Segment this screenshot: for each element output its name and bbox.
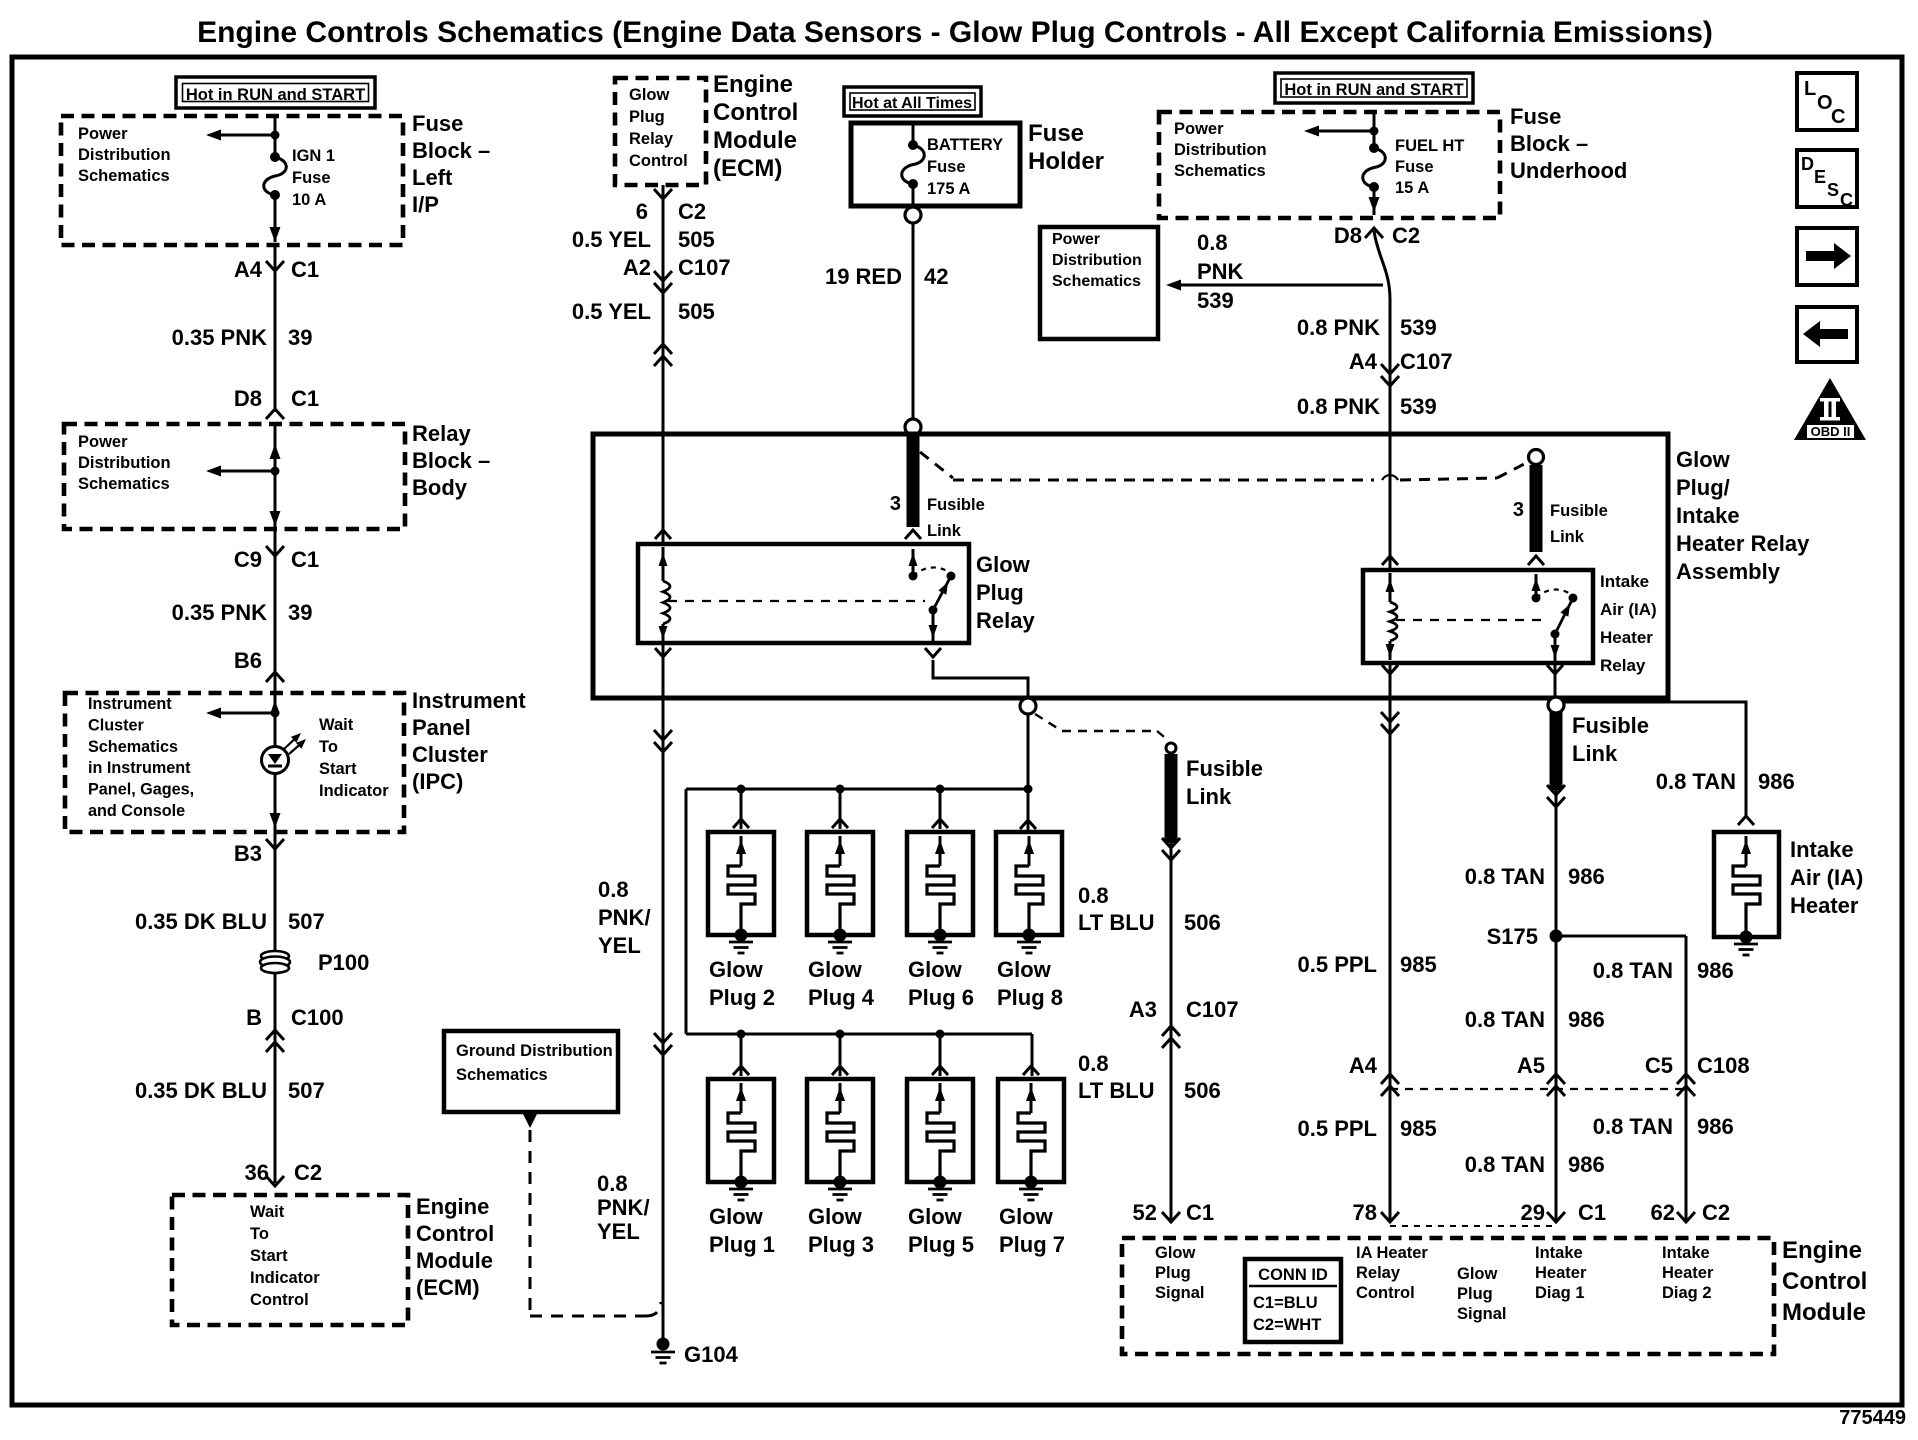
svg-text:Glow: Glow (808, 957, 863, 982)
svg-text:506: 506 (1184, 1078, 1221, 1103)
svg-text:986: 986 (1568, 864, 1605, 889)
svg-text:0.8 TAN: 0.8 TAN (1465, 1152, 1545, 1177)
svg-text:PNK/: PNK/ (598, 905, 651, 930)
svg-text:Plug 6: Plug 6 (908, 985, 974, 1010)
svg-text:A3: A3 (1129, 997, 1157, 1022)
svg-text:Cluster: Cluster (88, 716, 144, 734)
svg-text:B3: B3 (234, 841, 262, 866)
svg-text:Glow: Glow (1155, 1244, 1195, 1262)
svg-text:IGN 1: IGN 1 (292, 147, 335, 165)
svg-text:Distribution: Distribution (78, 454, 171, 472)
svg-text:Fusible: Fusible (927, 496, 985, 514)
svg-text:Schematics: Schematics (1052, 273, 1141, 290)
svg-text:0.8 TAN: 0.8 TAN (1593, 1114, 1673, 1139)
svg-text:Left: Left (412, 165, 453, 190)
svg-text:Fuse: Fuse (412, 111, 463, 136)
svg-text:D8: D8 (234, 386, 262, 411)
svg-text:A4: A4 (1349, 349, 1378, 374)
svg-text:Heater Relay: Heater Relay (1676, 531, 1810, 556)
svg-text:986: 986 (1697, 1114, 1734, 1139)
svg-text:Block –: Block – (412, 448, 490, 473)
svg-text:C100: C100 (291, 1005, 344, 1030)
svg-text:Diag 1: Diag 1 (1535, 1284, 1585, 1302)
svg-text:Indicator: Indicator (250, 1269, 320, 1287)
svg-text:0.8: 0.8 (598, 877, 629, 902)
svg-text:0.35 PNK: 0.35 PNK (172, 325, 267, 350)
svg-text:3: 3 (1513, 499, 1524, 521)
svg-text:506: 506 (1184, 910, 1221, 935)
svg-text:C2: C2 (678, 199, 706, 224)
svg-text:Block –: Block – (412, 138, 490, 163)
svg-text:Start: Start (250, 1247, 288, 1265)
svg-text:(IPC): (IPC) (412, 769, 463, 794)
svg-text:Fusible: Fusible (1572, 713, 1649, 738)
svg-text:Plug 3: Plug 3 (808, 1232, 874, 1257)
svg-text:Air (IA): Air (IA) (1600, 600, 1657, 619)
svg-text:Plug: Plug (1155, 1264, 1191, 1282)
svg-text:0.5 YEL: 0.5 YEL (572, 227, 651, 252)
svg-text:Relay: Relay (976, 608, 1035, 633)
svg-text:C2: C2 (294, 1160, 322, 1185)
svg-text:P100: P100 (318, 950, 369, 975)
svg-text:Module: Module (416, 1248, 493, 1273)
svg-text:10 A: 10 A (292, 191, 326, 209)
svg-text:0.8: 0.8 (1197, 230, 1228, 255)
svg-text:Intake: Intake (1600, 572, 1649, 591)
svg-text:507: 507 (288, 909, 325, 934)
svg-text:Link: Link (1186, 784, 1232, 809)
svg-text:Glow: Glow (629, 86, 669, 104)
svg-text:LT BLU: LT BLU (1078, 1078, 1155, 1103)
svg-text:Plug 8: Plug 8 (997, 985, 1063, 1010)
svg-text:Intake: Intake (1662, 1244, 1710, 1262)
svg-text:Fuse: Fuse (1028, 120, 1084, 147)
svg-text:Plug/: Plug/ (1676, 475, 1730, 500)
svg-text:D8: D8 (1334, 223, 1362, 248)
svg-text:Control: Control (713, 99, 798, 126)
svg-text:Link: Link (927, 522, 962, 540)
svg-text:0.8 PNK: 0.8 PNK (1297, 394, 1380, 419)
svg-text:0.8 TAN: 0.8 TAN (1465, 864, 1545, 889)
svg-text:BATTERY: BATTERY (927, 136, 1003, 154)
svg-text:PNK/: PNK/ (597, 1195, 650, 1220)
svg-text:(ECM): (ECM) (713, 155, 782, 182)
svg-text:Plug 4: Plug 4 (808, 985, 875, 1010)
svg-text:C1: C1 (291, 547, 319, 572)
svg-text:C2=WHT: C2=WHT (1253, 1316, 1321, 1334)
svg-text:(ECM): (ECM) (416, 1275, 480, 1300)
svg-text:Glow: Glow (1457, 1265, 1497, 1283)
svg-text:C107: C107 (678, 255, 731, 280)
svg-text:Intake: Intake (1535, 1244, 1583, 1262)
svg-text:Holder: Holder (1028, 148, 1104, 175)
svg-text:Relay: Relay (629, 130, 674, 148)
svg-text:A2: A2 (623, 255, 651, 280)
svg-text:0.35 DK BLU: 0.35 DK BLU (135, 909, 267, 934)
svg-text:Relay: Relay (1356, 1264, 1401, 1282)
svg-text:Plug: Plug (629, 108, 665, 126)
svg-text:L: L (1804, 78, 1816, 100)
svg-text:YEL: YEL (598, 933, 641, 958)
svg-text:985: 985 (1400, 1116, 1437, 1141)
svg-text:Wait: Wait (250, 1203, 285, 1221)
svg-text:Glow: Glow (1676, 447, 1731, 472)
svg-text:C: C (1840, 190, 1853, 210)
svg-text:Block –: Block – (1510, 131, 1588, 156)
svg-text:C1: C1 (1578, 1200, 1606, 1225)
svg-text:Ground Distribution: Ground Distribution (456, 1042, 613, 1060)
svg-text:Power: Power (78, 125, 128, 143)
svg-text:Distribution: Distribution (78, 146, 171, 164)
svg-text:C: C (1831, 106, 1845, 128)
svg-text:Plug: Plug (1457, 1285, 1493, 1303)
svg-text:78: 78 (1353, 1200, 1377, 1225)
svg-text:Schematics: Schematics (78, 167, 170, 185)
svg-text:539: 539 (1400, 315, 1437, 340)
svg-text:Panel, Gages,: Panel, Gages, (88, 781, 194, 799)
svg-text:Control: Control (416, 1221, 494, 1246)
svg-text:Distribution: Distribution (1174, 141, 1267, 159)
svg-text:A4: A4 (1349, 1053, 1378, 1078)
svg-text:A4: A4 (234, 257, 263, 282)
svg-text:Glow: Glow (908, 957, 963, 982)
svg-text:507: 507 (288, 1078, 325, 1103)
svg-text:0.8 PNK: 0.8 PNK (1297, 315, 1380, 340)
svg-text:B: B (246, 1005, 262, 1030)
svg-text:Heater: Heater (1790, 893, 1859, 918)
svg-text:Power: Power (1174, 120, 1224, 138)
svg-text:986: 986 (1568, 1007, 1605, 1032)
svg-text:Plug 7: Plug 7 (999, 1232, 1065, 1257)
svg-text:3: 3 (890, 493, 901, 515)
svg-text:Schematics: Schematics (88, 738, 178, 756)
svg-text:Relay: Relay (412, 421, 471, 446)
svg-text:19 RED: 19 RED (825, 264, 902, 289)
svg-text:539: 539 (1400, 394, 1437, 419)
svg-text:YEL: YEL (597, 1219, 640, 1244)
svg-text:39: 39 (288, 325, 312, 350)
svg-text:and Console: and Console (88, 802, 185, 820)
svg-text:29: 29 (1521, 1200, 1545, 1225)
svg-text:Module: Module (713, 127, 797, 154)
svg-text:Fuse: Fuse (1395, 158, 1434, 176)
svg-text:0.8: 0.8 (1078, 1051, 1109, 1076)
svg-text:PNK: PNK (1197, 259, 1244, 284)
svg-text:Start: Start (319, 760, 357, 778)
svg-text:Intake: Intake (1676, 503, 1740, 528)
svg-text:Hot in RUN and START: Hot in RUN and START (186, 86, 365, 104)
svg-text:C108: C108 (1697, 1053, 1750, 1078)
svg-text:OBD II: OBD II (1811, 424, 1851, 439)
svg-text:Panel: Panel (412, 715, 471, 740)
svg-text:52: 52 (1133, 1200, 1157, 1225)
svg-text:Glow: Glow (976, 552, 1031, 577)
svg-text:0.8: 0.8 (597, 1171, 628, 1196)
svg-text:Signal: Signal (1155, 1284, 1205, 1302)
svg-text:Air (IA): Air (IA) (1790, 865, 1863, 890)
svg-text:Signal: Signal (1457, 1305, 1507, 1323)
svg-text:42: 42 (924, 264, 948, 289)
svg-text:C9: C9 (234, 547, 262, 572)
svg-text:6: 6 (636, 199, 648, 224)
svg-text:0.35 DK BLU: 0.35 DK BLU (135, 1078, 267, 1103)
svg-text:505: 505 (678, 227, 715, 252)
svg-text:Engine: Engine (713, 71, 793, 98)
svg-text:Plug 2: Plug 2 (709, 985, 775, 1010)
svg-text:IA Heater: IA Heater (1356, 1244, 1428, 1262)
svg-text:Schematics: Schematics (78, 475, 170, 493)
svg-text:Plug 5: Plug 5 (908, 1232, 974, 1257)
svg-text:Wait: Wait (319, 716, 354, 734)
svg-text:Fuse: Fuse (1510, 104, 1561, 129)
svg-text:62: 62 (1651, 1200, 1675, 1225)
svg-text:D: D (1801, 154, 1814, 174)
svg-text:Fuse: Fuse (292, 169, 331, 187)
svg-text:505: 505 (678, 299, 715, 324)
svg-text:LT BLU: LT BLU (1078, 910, 1155, 935)
svg-text:986: 986 (1697, 958, 1734, 983)
svg-text:Instrument: Instrument (412, 688, 526, 713)
svg-text:Instrument: Instrument (88, 695, 172, 713)
svg-text:Hot in RUN and START: Hot in RUN and START (1284, 81, 1463, 99)
svg-text:539: 539 (1197, 288, 1234, 313)
svg-text:Indicator: Indicator (319, 782, 389, 800)
svg-text:Link: Link (1550, 528, 1585, 546)
svg-text:To: To (319, 738, 338, 756)
svg-text:C5: C5 (1645, 1053, 1673, 1078)
svg-text:0.8 TAN: 0.8 TAN (1656, 769, 1736, 794)
svg-text:175 A: 175 A (927, 180, 971, 198)
svg-text:E: E (1814, 167, 1826, 187)
svg-text:Distribution: Distribution (1052, 252, 1142, 269)
svg-text:0.8: 0.8 (1078, 883, 1109, 908)
svg-text:I/P: I/P (412, 192, 439, 217)
svg-text:Glow: Glow (999, 1204, 1054, 1229)
svg-text:15 A: 15 A (1395, 179, 1429, 197)
svg-text:C1=BLU: C1=BLU (1253, 1294, 1318, 1312)
svg-text:0.35 PNK: 0.35 PNK (172, 600, 267, 625)
svg-text:B6: B6 (234, 648, 262, 673)
svg-text:S175: S175 (1487, 924, 1538, 949)
svg-text:Heater: Heater (1535, 1264, 1587, 1282)
svg-text:0.8 TAN: 0.8 TAN (1593, 958, 1673, 983)
svg-text:Glow: Glow (908, 1204, 963, 1229)
svg-text:986: 986 (1758, 769, 1795, 794)
svg-text:A5: A5 (1517, 1053, 1545, 1078)
svg-text:G104: G104 (684, 1342, 739, 1367)
svg-text:Assembly: Assembly (1676, 559, 1781, 584)
svg-text:C107: C107 (1186, 997, 1239, 1022)
svg-text:36: 36 (245, 1160, 269, 1185)
svg-text:0.8 TAN: 0.8 TAN (1465, 1007, 1545, 1032)
svg-text:Glow: Glow (997, 957, 1052, 982)
svg-text:Diag 2: Diag 2 (1662, 1284, 1712, 1302)
svg-text:Glow: Glow (808, 1204, 863, 1229)
svg-text:Plug 1: Plug 1 (709, 1232, 775, 1257)
svg-text:0.5 PPL: 0.5 PPL (1298, 952, 1377, 977)
svg-text:Link: Link (1572, 741, 1618, 766)
svg-text:986: 986 (1568, 1152, 1605, 1177)
svg-text:To: To (250, 1225, 269, 1243)
svg-text:Glow: Glow (709, 1204, 764, 1229)
svg-text:Control: Control (1356, 1284, 1415, 1302)
svg-text:Relay: Relay (1600, 656, 1646, 675)
svg-text:Power: Power (1052, 231, 1100, 248)
svg-text:985: 985 (1400, 952, 1437, 977)
svg-text:0.5 YEL: 0.5 YEL (572, 299, 651, 324)
svg-text:Fusible: Fusible (1186, 756, 1263, 781)
svg-text:Control: Control (1782, 1268, 1867, 1295)
svg-text:FUEL HT: FUEL HT (1395, 137, 1464, 155)
svg-text:Fusible: Fusible (1550, 502, 1608, 520)
svg-text:Fuse: Fuse (927, 158, 966, 176)
svg-text:Glow: Glow (709, 957, 764, 982)
svg-text:CONN ID: CONN ID (1258, 1266, 1328, 1284)
svg-text:S: S (1827, 180, 1839, 200)
svg-text:Engine: Engine (416, 1194, 489, 1219)
svg-text:775449: 775449 (1839, 1407, 1906, 1429)
svg-text:Control: Control (629, 152, 688, 170)
svg-text:C1: C1 (291, 257, 319, 282)
svg-text:Cluster: Cluster (412, 742, 488, 767)
svg-text:Plug: Plug (976, 580, 1024, 605)
svg-text:Control: Control (250, 1291, 309, 1309)
svg-text:Heater: Heater (1662, 1264, 1714, 1282)
svg-text:C1: C1 (1186, 1200, 1214, 1225)
svg-text:Power: Power (78, 433, 128, 451)
svg-text:Engine Controls Schematics (En: Engine Controls Schematics (Engine Data … (197, 16, 1713, 49)
svg-text:0.5 PPL: 0.5 PPL (1298, 1116, 1377, 1141)
svg-text:39: 39 (288, 600, 312, 625)
svg-text:Intake: Intake (1790, 837, 1854, 862)
svg-text:Underhood: Underhood (1510, 158, 1627, 183)
svg-text:Hot at All Times: Hot at All Times (852, 95, 972, 112)
svg-text:C107: C107 (1400, 349, 1453, 374)
svg-text:Module: Module (1782, 1299, 1866, 1326)
svg-text:Engine: Engine (1782, 1237, 1862, 1264)
svg-text:C1: C1 (291, 386, 319, 411)
svg-text:Body: Body (412, 475, 468, 500)
svg-text:in Instrument: in Instrument (88, 759, 191, 777)
svg-text:Schematics: Schematics (456, 1066, 548, 1084)
svg-text:C2: C2 (1392, 223, 1420, 248)
svg-text:Schematics: Schematics (1174, 162, 1266, 180)
svg-text:C2: C2 (1702, 1200, 1730, 1225)
svg-text:Heater: Heater (1600, 628, 1653, 647)
